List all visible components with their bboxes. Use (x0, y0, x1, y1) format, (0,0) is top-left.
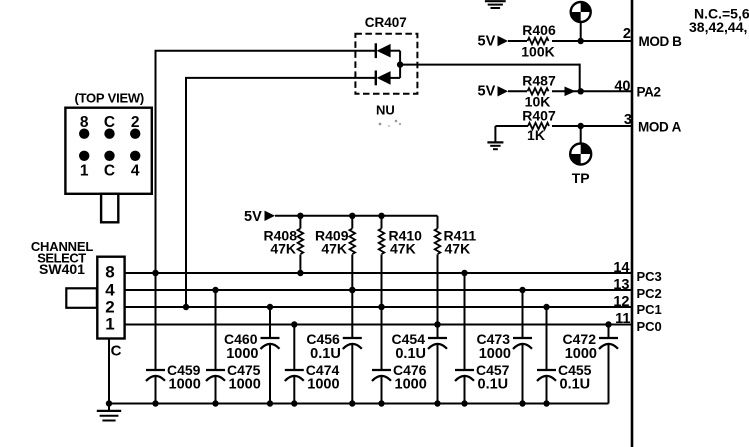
node MOD A junction (578, 123, 584, 129)
svg-text:100K: 100K (521, 44, 554, 60)
wire: switch common to ground bus (108, 339, 110, 404)
svg-text:C472: C472 (563, 331, 597, 347)
wire PC3 to CR407 top diode (155, 51, 157, 273)
svg-text:R407: R407 (522, 108, 556, 124)
svg-text:5V: 5V (244, 209, 262, 225)
svg-text:1K: 1K (527, 127, 545, 143)
test point (top) (571, 2, 591, 22)
svg-text:0.1U: 0.1U (560, 377, 591, 393)
capacitor C473 (522, 290, 524, 338)
svg-text:PC2: PC2 (637, 286, 662, 301)
svg-text:11: 11 (615, 311, 630, 327)
resistor R410 (381, 216, 383, 229)
svg-text:C: C (104, 163, 115, 180)
svg-text:2: 2 (131, 114, 140, 131)
ground symbol (switch common) (108, 404, 110, 411)
wire PC1 (line 2) (125, 306, 632, 308)
svg-text:C: C (111, 343, 122, 360)
wire PC3 (line 8) (125, 272, 632, 274)
wire PC1 to CR407 bottom diode (185, 78, 187, 307)
node R410/PC1 (378, 304, 384, 310)
svg-text:1000: 1000 (307, 377, 339, 393)
svg-text:47K: 47K (270, 240, 296, 256)
wire MOD A node to TP (580, 126, 582, 144)
capacitor C454 (437, 325, 439, 339)
capacitor C472 (608, 325, 610, 339)
svg-text:47K: 47K (321, 240, 347, 256)
wire PA2 (508, 90, 632, 92)
svg-text:5V: 5V (478, 84, 496, 100)
connector pin 1 (bottom row) (79, 151, 89, 161)
svg-text:40: 40 (614, 79, 630, 95)
svg-text:MOD B: MOD B (639, 34, 683, 49)
test point TP (570, 144, 591, 165)
svg-text:CR407: CR407 (365, 15, 407, 30)
node R411/PC0 (434, 321, 440, 327)
diode CR407b (375, 71, 377, 86)
wire ground bus (109, 403, 609, 405)
svg-text:1: 1 (105, 315, 114, 334)
svg-text:8: 8 (80, 114, 89, 131)
svg-text:1000: 1000 (479, 346, 511, 362)
capacitor C475 (215, 290, 217, 370)
wire CR407 common (399, 51, 401, 78)
node 5V rail / R408 (297, 213, 303, 219)
svg-text:NU: NU (376, 103, 395, 118)
diode pack CR407 dashed box (355, 34, 417, 94)
svg-text:1000: 1000 (565, 346, 597, 362)
svg-text:1000: 1000 (169, 377, 201, 393)
svg-text:C456: C456 (306, 331, 340, 347)
svg-text:R487: R487 (522, 73, 556, 89)
svg-text:14: 14 (613, 260, 629, 276)
svg-text:PA2: PA2 (637, 85, 661, 100)
ground (top) (485, 0, 506, 2)
node R409/PC2 (349, 287, 355, 293)
svg-text:12: 12 (613, 294, 629, 310)
bus: IC left edge (631, 0, 634, 447)
wire CR407 to PA2 node (400, 64, 580, 66)
svg-text:8: 8 (105, 263, 114, 282)
svg-text:2: 2 (623, 26, 631, 42)
capacitor C460 (269, 307, 271, 338)
svg-text:1: 1 (80, 163, 89, 180)
wire TP to MOD B node (580, 22, 582, 41)
capacitor C476 (381, 307, 383, 370)
connector pin C (bottom row) (104, 151, 114, 161)
node 5V rail / R410 (378, 213, 384, 219)
svg-text:0.1U: 0.1U (395, 346, 426, 362)
switch SW401 body (97, 257, 124, 339)
svg-text:4: 4 (131, 163, 140, 180)
svg-text:3: 3 (624, 112, 632, 128)
diode CR407a (375, 43, 377, 58)
svg-text:1000: 1000 (226, 346, 258, 362)
connector tab (101, 194, 118, 223)
svg-text:(TOP VIEW): (TOP VIEW) (75, 90, 144, 105)
svg-text:38,42,44,: 38,42,44, (689, 19, 747, 35)
capacitor C459 (155, 273, 157, 370)
svg-text:C460: C460 (224, 331, 258, 347)
switch lever (66, 288, 97, 308)
capacitor C456 (351, 290, 353, 338)
wire PC0 (line 1) (125, 324, 632, 326)
ground for R407 (494, 126, 496, 142)
resistor R407 (528, 119, 552, 133)
node MOD B junction (578, 38, 584, 44)
svg-text:C454: C454 (392, 331, 426, 347)
capacitor C455 (546, 307, 548, 370)
svg-text:PC0: PC0 (637, 319, 662, 334)
wire MOD A (495, 125, 632, 127)
resistor R408 (299, 216, 301, 229)
svg-text:1000: 1000 (229, 377, 261, 393)
svg-text:PC1: PC1 (637, 302, 662, 317)
resistor R411 (437, 216, 439, 229)
resistor R406 (527, 34, 552, 48)
svg-text:C: C (104, 114, 115, 131)
connector pin 4 (bottom row) (130, 151, 140, 161)
arrow on PA2 wire (565, 87, 576, 97)
wire 5V rail (275, 215, 438, 217)
svg-text:13: 13 (613, 277, 629, 293)
connector body (65, 108, 151, 194)
wire PC2 (line 4) (125, 289, 632, 291)
svg-text:0.1U: 0.1U (310, 346, 341, 362)
svg-text:0.1U: 0.1U (478, 377, 509, 393)
svg-text:SW401: SW401 (39, 261, 85, 277)
svg-text:47K: 47K (445, 240, 471, 256)
node 5V rail / R409 (349, 213, 355, 219)
svg-text:5V: 5V (478, 33, 496, 49)
svg-text:47K: 47K (390, 240, 416, 256)
(faint print smudge below NU) (379, 123, 382, 126)
node CR407 junction (397, 61, 403, 67)
node PA2 junction (578, 88, 584, 94)
resistor R409 (351, 216, 353, 229)
svg-text:TP: TP (572, 170, 590, 186)
capacitor C474 (293, 325, 295, 371)
svg-text:PC3: PC3 (637, 269, 662, 284)
svg-text:R406: R406 (522, 22, 556, 38)
node R408/PC3 (297, 270, 303, 276)
capacitor C457 (464, 273, 466, 370)
wire MOD B (508, 40, 632, 42)
svg-text:C473: C473 (477, 331, 511, 347)
svg-text:MOD A: MOD A (638, 120, 682, 135)
resistor R487 (527, 84, 552, 98)
svg-text:1000: 1000 (395, 377, 427, 393)
